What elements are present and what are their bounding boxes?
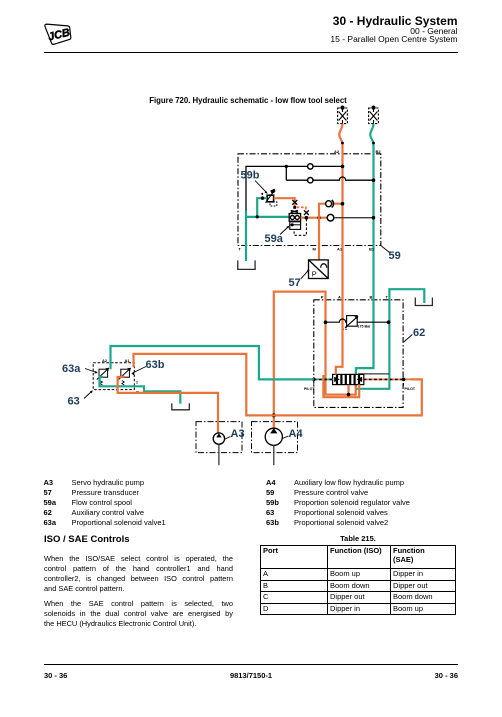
closed port X symbol 2 [304,210,309,215]
wire pump A3 suction [218,444,220,465]
svg-text:PILOT: PILOT [304,387,315,391]
coupler quick-release 1 (orange circuit) [338,106,348,124]
valve 59 boundary (pressure control valve) [238,154,381,246]
svg-text:62: 62 [413,327,425,339]
wire orange block 63 supply from pump A3 [118,377,218,433]
Table 215 [260,534,456,543]
orifice in gallery line 2 [308,178,313,183]
valve 63b proportional solenoid valve [119,368,131,385]
node branch junction [285,165,288,168]
wire black dashed drain loop [294,219,306,235]
legend right column [266,478,410,528]
header rule [44,52,458,54]
ISO/SAE heading [44,534,130,545]
svg-text:57: 57 [289,277,301,289]
wire teal from coupler 2 down through valve 59, around spool of valve 62, up to tank [356,124,424,389]
svg-text:59a: 59a [265,233,284,245]
pressure transducer 57 [309,260,329,279]
svg-text:A2: A2 [102,358,108,363]
paragraph 1 [44,554,233,594]
wire orange servo rail: 63 port A1 down, along bottom, up to right pilot [134,354,422,416]
wire orange loop to check valve upper [319,204,343,218]
svg-text:A3: A3 [231,428,245,440]
wire black gallery line 2 with hop over orange [286,177,373,180]
solenoid block 63 boundary [93,363,134,390]
spool of valve 62 [333,374,364,384]
svg-text:63b: 63b [146,359,165,371]
svg-text:T: T [238,247,241,252]
wire orange down to pressure transducer [318,218,320,260]
svg-text:B: B [370,294,373,299]
orifice in gallery line 1 [308,164,313,169]
wire orange work line from valve 59a [301,217,328,219]
check valve upper with seat [326,201,332,207]
valve 62 boundary (auxiliary control valve) [314,300,403,408]
wire pilot left: teal under black dashes [314,378,333,380]
coupler quick-release 2 (teal circuit) [369,106,379,124]
pump A3 servo hydraulic pump [213,433,224,444]
svg-text:59: 59 [389,250,401,262]
svg-text:A2: A2 [334,149,340,154]
wire orange under-spool riser [347,385,349,395]
svg-text:63a: 63a [62,363,81,375]
valve 59b proportional solenoid regulator valve [261,189,276,206]
wire orange pump A4 riser to valve 62 port P and under-spool gallery [274,292,356,428]
pump A4 auxiliary low flow hydraulic pump [265,428,282,445]
wire black from check valve to teal [334,217,374,219]
tank below valve 59 [238,260,255,269]
svg-text:63: 63 [68,395,80,407]
svg-text:A: A [338,294,341,299]
wire teal to valve 59b [257,198,267,217]
relief valve 175 Bar [344,316,358,330]
wire orange under-spool outer return loop [323,375,359,397]
check valve lower [327,214,334,221]
paragraph 2 [44,599,233,629]
wire orange dashed pilot [297,207,306,212]
svg-text:B1: B1 [369,247,375,252]
JCB logo [42,20,76,48]
wire teal return header in valve 59 [246,216,289,218]
pump A4 boundary [252,422,298,453]
wire black relief gallery with hop [326,319,389,322]
svg-text:B2: B2 [376,149,382,154]
svg-text:A1: A1 [337,247,343,252]
pump A3 boundary [196,422,242,453]
wire teal block 63 drain to tank [100,377,181,404]
wire teal to tank [245,211,247,262]
svg-text:A1: A1 [125,358,131,363]
wire black gallery line 1 in valve 59 [246,166,343,212]
svg-text:M: M [313,247,317,252]
svg-text:59b: 59b [241,170,260,182]
footer rule [44,664,458,665]
wire orange spool A-port jog [336,367,343,375]
svg-text:T: T [386,294,389,299]
wire black spool port B link to teal [359,374,390,378]
wire branch drop [285,166,287,180]
svg-text:175 Bar: 175 Bar [358,325,372,329]
svg-text:P: P [312,269,317,278]
wire pump A4 suction [273,445,275,465]
valve 63a proportional solenoid valve [97,368,109,385]
wire orange from valve 59b to solenoid X port [274,198,295,206]
figure caption [0,96,499,105]
wire orange supply from coupler 1 down through valve 59 to valve 62 spool port A [339,124,342,368]
wire pilot right: orange with black dashes [364,378,411,380]
node hose couplings [341,142,344,145]
tank right of valve 62 [415,298,432,306]
svg-text:A4: A4 [289,428,304,440]
svg-text:PILOT: PILOT [405,387,416,391]
tank below block 63 [172,403,190,409]
svg-text:P: P [321,294,324,299]
legend left column [44,478,166,528]
wire teal pilot from block 63 port A2 to valve 62 left pilot [111,346,314,379]
svg-text:T: T [136,380,139,385]
closed port X symbol [292,200,297,205]
header text [333,14,458,28]
valve 59a flow control spool [289,210,300,229]
